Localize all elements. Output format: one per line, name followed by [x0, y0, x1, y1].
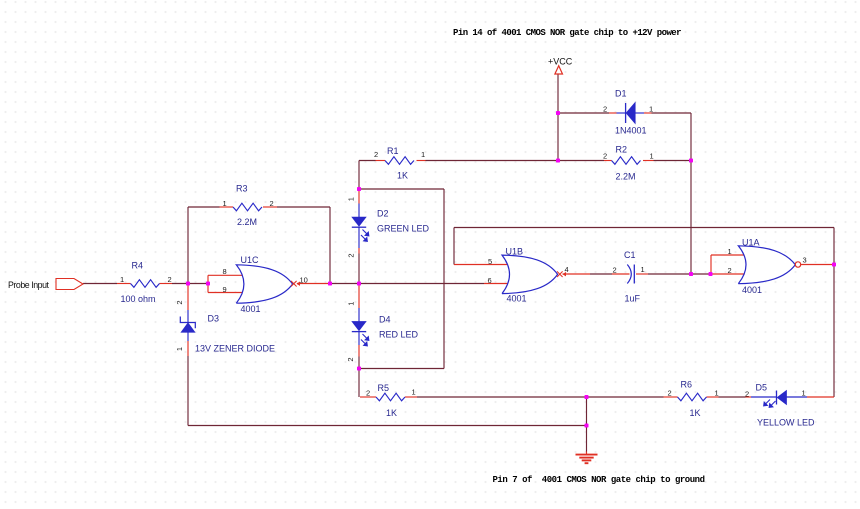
svg-text:1: 1	[802, 389, 806, 398]
svg-text:2: 2	[374, 150, 378, 159]
svg-text:Pin 14 of 4001 CMOS NOR gate c: Pin 14 of 4001 CMOS NOR gate chip to +12…	[453, 28, 681, 38]
svg-text:10: 10	[300, 276, 308, 285]
svg-text:D3: D3	[208, 314, 220, 324]
svg-text:5: 5	[488, 257, 492, 266]
svg-text:2.2M: 2.2M	[237, 217, 257, 227]
svg-text:2: 2	[668, 389, 672, 398]
svg-text:2: 2	[745, 390, 749, 399]
svg-text:R3: R3	[236, 184, 248, 194]
svg-text:100 ohm: 100 ohm	[121, 294, 156, 304]
svg-text:1: 1	[120, 275, 124, 284]
svg-text:C1: C1	[624, 250, 636, 260]
svg-text:1: 1	[649, 105, 653, 114]
svg-text:2: 2	[168, 275, 172, 284]
svg-text:2: 2	[613, 266, 617, 275]
svg-text:R6: R6	[681, 380, 693, 390]
svg-text:4: 4	[565, 265, 569, 274]
svg-text:1N4001: 1N4001	[615, 126, 647, 136]
svg-text:1: 1	[715, 389, 719, 398]
svg-text:2.2M: 2.2M	[616, 172, 636, 182]
svg-text:2: 2	[270, 199, 274, 208]
svg-text:2: 2	[603, 152, 607, 161]
svg-text:1: 1	[347, 302, 356, 306]
svg-text:U1B: U1B	[506, 247, 524, 257]
svg-text:2: 2	[728, 266, 732, 275]
svg-text:U1A: U1A	[742, 238, 760, 248]
svg-text:Probe Input: Probe Input	[8, 280, 50, 290]
svg-text:1: 1	[641, 265, 645, 274]
svg-text:1: 1	[412, 388, 416, 397]
svg-text:R5: R5	[378, 383, 390, 393]
svg-text:+VCC: +VCC	[548, 57, 573, 67]
svg-text:YELLOW LED: YELLOW LED	[757, 418, 815, 428]
svg-text:6: 6	[488, 276, 492, 285]
svg-text:U1C: U1C	[241, 255, 260, 265]
svg-text:1: 1	[650, 152, 654, 161]
svg-text:9: 9	[223, 285, 227, 294]
svg-text:3: 3	[803, 256, 807, 265]
svg-text:1K: 1K	[386, 408, 397, 418]
svg-text:2: 2	[346, 357, 355, 361]
svg-text:4001: 4001	[241, 304, 261, 314]
svg-text:D4: D4	[379, 315, 391, 325]
svg-text:13V ZENER DIODE: 13V ZENER DIODE	[195, 344, 275, 354]
svg-text:2: 2	[175, 300, 184, 304]
svg-text:RED LED: RED LED	[379, 330, 419, 340]
svg-text:1K: 1K	[397, 171, 408, 181]
svg-text:D5: D5	[756, 383, 768, 393]
svg-text:2: 2	[603, 105, 607, 114]
svg-text:1K: 1K	[690, 408, 701, 418]
svg-text:1: 1	[728, 247, 732, 256]
svg-text:1: 1	[223, 199, 227, 208]
svg-text:R4: R4	[132, 261, 144, 271]
svg-text:Pin 7 of 4001 CMOS NOR gate c: Pin 7 of 4001 CMOS NOR gate chip to grou…	[493, 475, 705, 485]
svg-text:8: 8	[223, 267, 227, 276]
svg-text:4001: 4001	[742, 285, 762, 295]
svg-text:D2: D2	[377, 209, 389, 219]
svg-text:1: 1	[421, 150, 425, 159]
svg-text:2: 2	[366, 389, 370, 398]
svg-text:GREEN LED: GREEN LED	[377, 224, 430, 234]
svg-text:R1: R1	[387, 146, 399, 156]
svg-text:R2: R2	[616, 145, 628, 155]
svg-text:4001: 4001	[507, 294, 527, 304]
svg-text:1: 1	[175, 347, 184, 351]
svg-text:1uF: 1uF	[625, 294, 641, 304]
svg-text:1: 1	[347, 197, 356, 201]
svg-text:2: 2	[347, 253, 356, 257]
svg-text:D1: D1	[615, 89, 627, 99]
